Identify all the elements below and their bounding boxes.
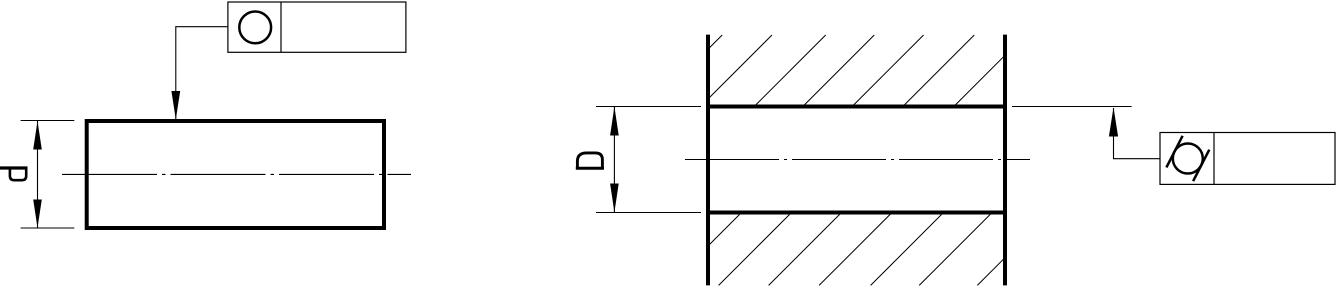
label D (rotated) [576,153,604,168]
frame divider [280,2,282,52]
hole hatching upper region [709,35,1005,106]
cylindricity symbol left tangent stroke [1166,136,1182,168]
dimension D lower arrowhead [610,184,619,213]
leader line from circularity frame [176,27,228,119]
feature control frame (circularity) [228,2,406,52]
circularity symbol [239,12,271,44]
label d (rotated) [0,168,28,180]
dimension d lower arrowhead [33,200,42,229]
dimension d upper arrowhead [33,121,42,150]
frame divider [1213,133,1215,185]
top surface extension line (right of hole, for leader) [1012,106,1132,108]
hole right wall line [1003,35,1007,286]
hole hatching lower region [709,213,1005,285]
dimension d top extension line [21,120,75,122]
leader line from cylindricity frame [1114,108,1161,159]
hole bottom surface line [706,211,1007,215]
leader arrowhead (points down to shaft top) [171,91,180,120]
dimension D bottom extension line [596,212,701,214]
dimension D top extension line [596,106,701,108]
dimension D dimension line [613,107,615,213]
hole centerline (dash-dot) [685,159,1030,161]
leader arrowhead (points up to hole surface) [1109,107,1118,136]
dimension d bottom extension line [21,227,75,229]
hole left wall line [706,35,710,286]
shaft centerline (dash-dot) [62,173,411,175]
shaft outline (left figure rectangle) [87,121,384,228]
cylindricity symbol right tangent stroke [1193,150,1209,182]
feature control frame (cylindricity) [1160,133,1335,185]
dimension d dimension line [37,121,39,228]
hole top surface line [706,105,1007,109]
dimension D upper arrowhead [610,107,619,136]
cylindricity symbol circle [1173,144,1203,174]
